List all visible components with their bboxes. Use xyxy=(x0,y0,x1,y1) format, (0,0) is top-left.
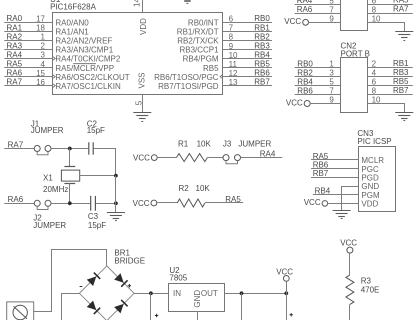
svg-text:8: 8 xyxy=(372,6,377,15)
wire CN2 pin 8 to net RB7 xyxy=(367,94,412,96)
jumper J2 xyxy=(34,200,51,209)
svg-text:2: 2 xyxy=(41,42,46,51)
svg-text:PGC: PGC xyxy=(361,165,379,174)
clock mark pin RA4 xyxy=(52,56,55,60)
wire U1 VSS pin 5 xyxy=(142,94,144,113)
svg-text:RA1/AN1: RA1/AN1 xyxy=(55,28,89,37)
svg-text:PIC16F628A: PIC16F628A xyxy=(50,3,96,12)
svg-text:VCC: VCC xyxy=(133,153,150,162)
wire U1 pin 11 to net RB5 xyxy=(223,67,272,69)
svg-text:RA6: RA6 xyxy=(8,195,24,204)
junction at C5 xyxy=(284,291,288,295)
svg-text:6: 6 xyxy=(229,15,234,24)
wire power jack to bridge AC input xyxy=(34,250,107,312)
svg-text:RB1/RX/DT: RB1/RX/DT xyxy=(177,28,219,37)
wire CN1 pin 6 to net RA5 xyxy=(367,4,412,6)
svg-text:10K: 10K xyxy=(196,184,211,193)
clock mark pin RA7 xyxy=(52,83,55,87)
capacitor C5 lead (cut at bottom) xyxy=(286,293,288,320)
svg-text:8: 8 xyxy=(229,33,234,42)
svg-text:10: 10 xyxy=(229,51,238,60)
svg-text:RB3: RB3 xyxy=(254,41,270,50)
wire U1 pin 12 to net RB6 xyxy=(223,76,272,78)
wire C2 to ground bus xyxy=(94,149,116,176)
clock mark pin RA6 xyxy=(52,74,55,78)
svg-text:X1: X1 xyxy=(43,173,53,182)
svg-text:RA2/AN2/VREF: RA2/AN2/VREF xyxy=(55,37,112,46)
svg-text:15pF: 15pF xyxy=(88,221,106,230)
wire VCC to R2 xyxy=(157,202,177,204)
svg-text:RA6: RA6 xyxy=(7,69,23,78)
svg-text:GND: GND xyxy=(361,182,379,191)
svg-text:BRIDGE: BRIDGE xyxy=(114,257,145,266)
wire CN2 pin 6 to net RB5 xyxy=(367,85,412,87)
wire X1 case to ground bus xyxy=(80,175,116,177)
svg-text:5: 5 xyxy=(134,100,143,105)
svg-text:IN: IN xyxy=(173,289,181,298)
junction on ground bus at C3 xyxy=(114,201,118,205)
svg-text:RA4: RA4 xyxy=(7,50,23,59)
svg-text:RB7/T1OSI/PGD: RB7/T1OSI/PGD xyxy=(158,82,219,91)
wire CN3 GND to ground xyxy=(342,187,360,211)
svg-text:RB5: RB5 xyxy=(203,64,219,73)
svg-text:VCC: VCC xyxy=(340,239,357,248)
svg-text:RB3: RB3 xyxy=(393,68,409,77)
wire BR1 negative to bottom edge xyxy=(62,294,80,320)
capacitor C3 xyxy=(91,196,96,211)
svg-text:4: 4 xyxy=(41,60,46,69)
svg-text:RA0/AN0: RA0/AN0 xyxy=(55,19,89,28)
wire net RB0 to CN2 pin 1 xyxy=(295,67,341,69)
svg-text:R2: R2 xyxy=(179,184,190,193)
rectifier bridge BR1 body xyxy=(79,266,134,320)
svg-text:RA5: RA5 xyxy=(313,152,329,161)
resistor R3 xyxy=(346,275,354,305)
svg-text:RA7: RA7 xyxy=(7,78,23,87)
svg-text:RB4: RB4 xyxy=(315,187,331,196)
wire R2 to net RA5 xyxy=(205,202,243,204)
svg-text:RA3: RA3 xyxy=(7,41,23,50)
svg-text:15pF: 15pF xyxy=(87,126,105,135)
svg-text:RB6: RB6 xyxy=(313,161,329,170)
svg-text:9: 9 xyxy=(229,42,234,51)
jumper J1 xyxy=(34,146,51,155)
junction at C1 xyxy=(149,291,153,295)
svg-text:12: 12 xyxy=(229,69,238,78)
plus label at BR1 xyxy=(128,284,131,287)
wire net RB6 to CN2 pin 7 xyxy=(295,94,341,96)
svg-text:13: 13 xyxy=(229,78,238,87)
svg-text:VSS: VSS xyxy=(137,72,146,88)
wire VCC to R3 xyxy=(349,253,351,275)
jumper J3 xyxy=(223,155,241,164)
svg-text:PGM: PGM xyxy=(361,191,380,200)
wire BR1 positive to U2 IN xyxy=(134,293,169,295)
wire U1 VDD pin 14 xyxy=(142,0,144,13)
svg-text:RB3/CCP1: RB3/CCP1 xyxy=(179,46,219,55)
wire net RA2 to U1 pin 1 xyxy=(4,40,52,42)
svg-text:JUMPER: JUMPER xyxy=(31,126,64,135)
svg-text:PGD: PGD xyxy=(361,174,379,183)
capacitor C2 xyxy=(89,142,93,154)
svg-text:7: 7 xyxy=(329,87,334,96)
svg-text:RB1: RB1 xyxy=(393,59,409,68)
svg-text:VDD: VDD xyxy=(139,18,148,35)
connector CN3 body xyxy=(359,147,396,212)
wire C3 to ground bus xyxy=(96,203,116,205)
svg-text:RA6: RA6 xyxy=(297,5,313,14)
wire net RB4 to CN2 pin 5 xyxy=(295,85,341,87)
wire net RB6 to CN3 PGC xyxy=(311,168,359,170)
ground at U1 VSS xyxy=(133,113,151,122)
wire R1 to jumper J3 xyxy=(207,157,223,159)
svg-text:4: 4 xyxy=(372,69,377,78)
svg-text:JUMPER: JUMPER xyxy=(238,140,271,149)
svg-text:RA7/OSC1/CLKIN: RA7/OSC1/CLKIN xyxy=(55,82,121,91)
wire net RA7 to U1 pin 16 xyxy=(4,85,52,87)
svg-text:RB4: RB4 xyxy=(254,50,270,59)
wire VCC to U2 output rail xyxy=(286,281,288,293)
svg-text:R1: R1 xyxy=(178,140,189,149)
svg-text:3: 3 xyxy=(329,69,334,78)
wire CN1 pin 8 to net RA7 xyxy=(367,13,412,15)
svg-text:2: 2 xyxy=(372,60,377,69)
junction at C4 xyxy=(240,291,244,295)
wire U2 OUT to VCC rail xyxy=(224,293,286,295)
wire net RB7 to CN3 PGD xyxy=(311,177,359,179)
wire R3 to bottom edge xyxy=(349,304,351,320)
plus label at C5 xyxy=(290,313,293,316)
svg-text:1: 1 xyxy=(41,33,46,42)
connector CN1 body (cut at top) xyxy=(341,0,368,31)
svg-text:R3: R3 xyxy=(361,276,372,285)
wire net RB2 to CN2 pin 3 xyxy=(295,76,341,78)
capacitor C1 lead (cut at bottom) xyxy=(150,293,152,320)
svg-text:6: 6 xyxy=(372,78,377,87)
svg-text:10K: 10K xyxy=(197,140,212,149)
svg-text:OUT: OUT xyxy=(201,289,218,298)
svg-text:VCC: VCC xyxy=(304,198,321,207)
svg-text:RB0: RB0 xyxy=(297,59,313,68)
resistor R1 xyxy=(176,154,207,162)
svg-text:VDD: VDD xyxy=(361,200,378,209)
svg-text:RA7: RA7 xyxy=(393,5,409,14)
minus label at BR1 xyxy=(80,286,83,288)
clock mark pin RB6 xyxy=(220,74,223,78)
svg-text:RB0/INT: RB0/INT xyxy=(188,19,219,28)
svg-text:RA4/T0CKI/CMP2: RA4/T0CKI/CMP2 xyxy=(55,55,120,64)
wire J1 to capacitor C2 and crystal X1 xyxy=(51,148,88,150)
ground at CN3 GND xyxy=(333,211,351,219)
diode BR1 lower-left xyxy=(87,301,100,314)
junction on ground bus at X1 xyxy=(114,174,118,178)
svg-text:J3: J3 xyxy=(223,140,232,149)
svg-text:RA3/AN3/CMP1: RA3/AN3/CMP1 xyxy=(55,46,113,55)
svg-text:RB6: RB6 xyxy=(254,69,270,78)
svg-text:GND: GND xyxy=(193,290,202,308)
regulator U2 body xyxy=(169,284,225,312)
svg-text:470E: 470E xyxy=(361,285,380,294)
ground partially cut at top edge xyxy=(184,1,191,3)
svg-text:PIC ICSP: PIC ICSP xyxy=(357,137,391,146)
connector CN2 body xyxy=(341,58,368,113)
svg-text:RA5: RA5 xyxy=(7,59,23,68)
svg-text:RB7: RB7 xyxy=(254,78,270,87)
svg-text:3: 3 xyxy=(41,51,46,60)
wire RA6 to jumper J2 xyxy=(4,203,34,205)
svg-text:20MHz: 20MHz xyxy=(43,185,68,194)
wire CN2 pin 2 to net RB1 xyxy=(367,67,412,69)
ground at crystal bus xyxy=(107,213,125,221)
wire U1 pin 8 to net RB2 xyxy=(223,40,272,42)
svg-text:1: 1 xyxy=(329,60,334,69)
diode BR1 lower-right xyxy=(114,300,127,313)
wire CN1 pin 10 to ground xyxy=(367,23,404,32)
svg-text:14: 14 xyxy=(132,0,141,7)
wire VCC to R1 xyxy=(157,157,176,159)
wire J2 to capacitor C3 and crystal X1 xyxy=(51,203,90,205)
svg-text:RB5: RB5 xyxy=(393,77,409,86)
wire U2 GND to bottom edge xyxy=(197,311,199,320)
wire RA7 to jumper J1 xyxy=(4,148,34,150)
resistor R2 xyxy=(177,199,205,207)
wire net RA6 to U1 pin 15 xyxy=(4,76,52,78)
svg-text:RB4: RB4 xyxy=(297,77,313,86)
svg-text:C3: C3 xyxy=(88,212,99,221)
svg-text:15: 15 xyxy=(36,69,45,78)
svg-text:RB1: RB1 xyxy=(254,23,270,32)
svg-text:17: 17 xyxy=(36,15,45,24)
wire net RA4 to U1 pin 3 xyxy=(4,58,52,60)
svg-text:RB2/TX/CK: RB2/TX/CK xyxy=(177,37,219,46)
wire CN2 pin 4 to net RB3 xyxy=(367,76,412,78)
svg-text:VCC: VCC xyxy=(133,199,150,208)
wire CN2 pin 10 to ground xyxy=(367,104,404,113)
wire net RA4 to CN1 pin 5 xyxy=(295,4,341,6)
svg-text:11: 11 xyxy=(229,60,238,69)
svg-text:RB2: RB2 xyxy=(297,68,313,77)
svg-text:RA0: RA0 xyxy=(7,14,23,23)
ground at CN1 pin 10 xyxy=(395,32,413,41)
wire net RA6 to CN1 pin 7 xyxy=(295,13,341,15)
wire net RA5 to U1 pin 4 xyxy=(4,67,52,69)
svg-text:RA6/OSC2/CLKOUT: RA6/OSC2/CLKOUT xyxy=(55,73,129,82)
svg-text:RB0: RB0 xyxy=(254,14,270,23)
plus label at C1 xyxy=(155,314,158,317)
wire VCC to CN2 pin 9 xyxy=(310,103,340,105)
svg-text:RA5: RA5 xyxy=(225,195,241,204)
wire U1 pin 13 to net RB7 xyxy=(223,85,272,87)
svg-text:16: 16 xyxy=(36,78,45,87)
svg-text:RB5: RB5 xyxy=(254,59,270,68)
svg-text:MCLR: MCLR xyxy=(361,156,384,165)
crystal X1 xyxy=(61,149,79,204)
svg-text:RB4/PGM: RB4/PGM xyxy=(183,55,219,64)
wire U1 pin 7 to net RB1 xyxy=(223,31,272,33)
wire net RA3 to U1 pin 2 xyxy=(4,49,52,51)
svg-text:RB7: RB7 xyxy=(313,169,329,178)
svg-text:RB6: RB6 xyxy=(297,86,313,95)
svg-text:5: 5 xyxy=(329,78,334,87)
junction at X1 bottom xyxy=(68,201,72,205)
wire net RB4 to CN3 PGM xyxy=(313,194,359,196)
pin name RA5/MCLR/VPP xyxy=(55,64,114,73)
svg-text:RA5/MCLR/VPP: RA5/MCLR/VPP xyxy=(55,64,114,73)
svg-text:7805: 7805 xyxy=(169,274,187,283)
wire net RA5 to CN3 MCLR xyxy=(311,159,359,161)
wire VCC to CN1 pin 9 xyxy=(309,22,342,24)
wire net RA1 to U1 pin 18 xyxy=(4,31,52,33)
wire VCC to CN3 VDD xyxy=(328,203,359,205)
svg-text:RB2: RB2 xyxy=(254,32,270,41)
svg-text:RA4: RA4 xyxy=(260,149,276,158)
junction at X1 top xyxy=(68,147,72,151)
svg-text:18: 18 xyxy=(36,24,45,33)
diode BR1 upper-left xyxy=(87,273,100,286)
svg-text:VCC: VCC xyxy=(276,267,293,276)
wire U1 pin 10 to net RB4 xyxy=(223,58,272,60)
svg-text:7: 7 xyxy=(329,6,334,15)
wire U1 pin 9 to net RB3 xyxy=(223,49,272,51)
wire J3 to net RA4 xyxy=(240,157,282,159)
svg-text:RA2: RA2 xyxy=(7,32,23,41)
svg-text:8: 8 xyxy=(372,87,377,96)
svg-text:RB6/T1OSO/PGC: RB6/T1OSO/PGC xyxy=(154,73,219,82)
capacitor C4 lead (cut at bottom) xyxy=(241,293,243,320)
connector X2 power jack xyxy=(7,302,34,320)
svg-text:VCC: VCC xyxy=(284,17,301,26)
wire net RA0 to U1 pin 17 xyxy=(4,22,52,24)
diode BR1 upper-right xyxy=(114,273,127,286)
svg-text:JUMPER: JUMPER xyxy=(33,221,66,230)
svg-text:VCC: VCC xyxy=(286,99,303,108)
wire U1 pin 6 to net RB0 xyxy=(223,22,272,24)
ground at CN2 pin 10 xyxy=(395,113,413,121)
wire ground bus xyxy=(115,176,117,213)
svg-text:RA1: RA1 xyxy=(7,23,23,32)
svg-text:RB7: RB7 xyxy=(393,86,409,95)
svg-text:7: 7 xyxy=(229,24,234,33)
IC U1 PIC16F628A body xyxy=(53,13,223,95)
